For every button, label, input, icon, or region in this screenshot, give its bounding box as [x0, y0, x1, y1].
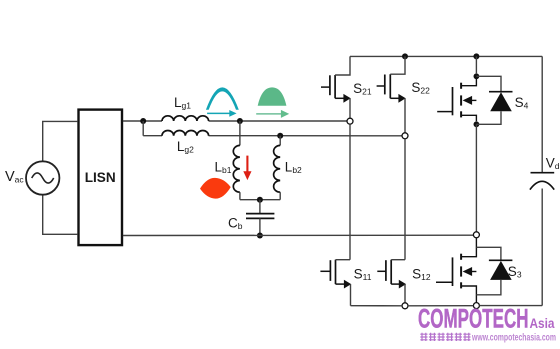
wire Lb2 top lead — [279, 136, 281, 146]
inductor Lg2 — [162, 130, 209, 135]
EMI deco: green dome — [258, 87, 287, 105]
node A terminal circle — [347, 118, 353, 124]
wire phase line g1 — [123, 120, 347, 122]
top DC rail — [350, 55, 542, 57]
node dot Cb top — [257, 197, 263, 203]
AC source Vac — [26, 161, 59, 194]
wire branch to line g2 — [142, 121, 144, 136]
node D terminal circle — [402, 303, 408, 309]
wire Lb1 bottom lead — [239, 192, 241, 200]
wire Cb bottom lead — [259, 218, 261, 235]
svg-text:LISN: LISN — [85, 170, 116, 185]
wire phase line g2 — [143, 135, 402, 137]
transistor S11 — [320, 260, 351, 289]
node dot top rail leg C — [473, 53, 479, 59]
node dot Lb1 tap — [237, 118, 243, 124]
wire node A down to S11 — [349, 124, 351, 260]
node dot line g1 branch — [140, 118, 146, 124]
wire S4 source down to node C — [475, 124, 477, 231]
wire right rail lower — [541, 189, 543, 306]
svg-text:COMPOTECH: COMPOTECH — [418, 304, 529, 334]
wire node B down to S12 — [404, 139, 406, 260]
deco: red blob — [200, 178, 231, 199]
capacitor Cb — [246, 214, 274, 219]
node C terminal circle — [473, 232, 479, 238]
svg-text:Asia: Asia — [530, 316, 555, 331]
EMI deco: cyan hump — [206, 87, 239, 109]
wire S11 source to bottom rail — [350, 284, 352, 306]
transistor S4 — [437, 56, 479, 127]
bottom bridge rail — [351, 305, 543, 307]
svg-text:www.compotechasia.com: www.compotechasia.com — [471, 332, 556, 344]
EMI deco: green arrow — [256, 110, 289, 118]
transistor S21 — [321, 56, 351, 102]
inductor Lb1 — [233, 145, 240, 192]
wire Vac top lead — [43, 121, 78, 161]
node dot Lb2 tap — [277, 133, 283, 139]
inductor Lg1 — [162, 116, 209, 121]
LISN box — [79, 110, 123, 246]
wire Vac bottom lead — [43, 195, 78, 235]
diode D3 (body diode of S3) — [476, 247, 512, 294]
wire Lb bottom joining — [240, 199, 280, 201]
node dot top rail leg B — [402, 53, 408, 59]
wire S21 source to node A — [349, 98, 351, 118]
wire Cb top lead — [259, 200, 261, 214]
node dot Cb bottom — [257, 233, 263, 239]
transistor S12 — [377, 260, 406, 289]
node B terminal circle — [402, 133, 408, 139]
wire S12 source to node D — [404, 284, 406, 303]
node E terminal circle — [473, 303, 479, 309]
inductor Lb2 — [274, 145, 281, 192]
transistor S22 — [377, 56, 406, 102]
logo chinese glyph blocks — [420, 333, 470, 341]
transistor S3 — [436, 238, 476, 303]
capacitor Vd curved plate — [530, 181, 554, 189]
right DC rail — [541, 56, 543, 172]
wire S22 source to node B — [404, 98, 406, 133]
EMI deco: cyan arrow — [207, 110, 237, 117]
wire Lb1 top lead — [239, 121, 241, 145]
wire return rail — [123, 234, 473, 236]
diode D4 (body diode of S4) — [476, 76, 512, 124]
capacitor Vd top plate — [531, 172, 555, 174]
deco: red current arrow — [243, 156, 251, 181]
wire Lb2 bottom lead — [279, 192, 281, 200]
